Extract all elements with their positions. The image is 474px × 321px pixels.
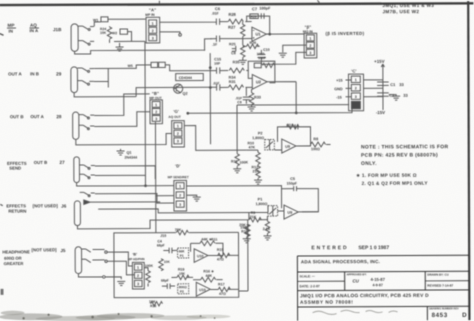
resistor R16 44K [193,269,223,282]
svg-text:ENTERED: ENTERED [311,245,348,251]
jumper W5 W4 [94,62,210,71]
svg-text:MP: MP [7,23,14,28]
label -15 [336,96,351,100]
svg-text:AQ OUT: AQ OUT [168,115,180,119]
svg-text:R27: R27 [228,25,236,30]
svg-text:ONLY.: ONLY. [361,161,377,167]
loop outer right [238,220,248,291]
svg-text:68pF: 68pF [157,243,165,247]
svg-text:‘D’: ‘D’ [175,163,180,168]
svg-text:R28: R28 [228,12,236,17]
svg-text:1: 1 [137,266,139,270]
border top [0,3,473,5]
capacitor C1 33 [377,82,404,87]
svg-text:10K: 10K [164,260,171,264]
svg-text:1,800Ω: 1,800Ω [252,136,264,140]
connector B (MQ IN) [304,33,317,58]
capacitor C8 [231,46,236,55]
wire jack6 ring [82,252,135,275]
left edge speck 3 [0,289,3,295]
svg-text:“A”: “A” [149,7,156,12]
svg-text:C1: C1 [390,82,396,87]
IC box CD4344 [176,74,204,81]
connector B3 label [128,253,145,262]
op-amp U10b [196,282,210,296]
svg-text:3: 3 [355,95,357,99]
svg-text:PCB PN: 425 REV B (68007b): PCB PN: 425 REV B (68007b) [361,152,438,158]
connector B3 (MP HD/PHN) [132,262,144,289]
svg-text:JMQ1, USE W1 & W3: JMQ1, USE W1 & W3 [382,3,434,8]
ground below R25 [239,59,247,64]
svg-text:U1: U1 [256,32,262,37]
resistor R13 [240,225,250,243]
svg-text:R17: R17 [218,282,225,286]
resistor R35 [229,60,252,78]
pot P2 [252,131,274,149]
ENTERED stamp [311,245,389,251]
svg-text:+15V: +15V [374,59,384,64]
resistor R10b 10K [159,259,171,271]
svg-text:2: 2 [309,44,311,48]
connector B2 label [149,91,161,100]
resistor R27 vertical [228,22,245,39]
svg-text:JMQ1 I/O PCB ANALOG CIRC: JMQ1 I/O PCB ANALOG CIRCUITRY, PCB 425 R… [300,293,429,299]
svg-text:‘C’: ‘C’ [351,69,356,74]
svg-text:REVISED 7-14-87: REVISED 7-14-87 [427,284,453,288]
label Q1 [124,151,137,160]
resistor R12 [252,165,263,184]
svg-text:W2: W2 [112,31,117,35]
svg-text:‘G’: ‘G’ [173,109,179,114]
svg-text:[NOT USED]: [NOT USED] [33,203,59,208]
capacitor C9 [212,35,243,46]
long wire minus15 b [237,105,349,151]
svg-text:2: 2 [177,132,179,136]
svg-text:47Ω: 47Ω [219,292,226,296]
svg-text:ADA SIGNAL PROCESSORS, INC.: ADA SIGNAL PROCESSORS, INC. [301,259,380,264]
connector B label [303,25,313,34]
op-amp U9 [282,139,296,153]
resistor R34 [228,76,252,90]
resistor R24 10K [100,26,112,43]
title drawn by [427,273,453,288]
svg-text:OUT A: OUT A [8,71,22,76]
wire row5 upper [80,192,174,203]
jack J3 [73,112,79,139]
svg-text:3: 3 [137,282,139,286]
svg-text:2: 2 [155,110,157,114]
resistor R17 47 [210,282,238,296]
ground right of D [187,195,201,201]
svg-text:(β IS INVERTED): (β IS INVERTED) [326,31,365,36]
svg-text:P1: P1 [258,198,263,202]
jack J6 [75,247,82,274]
wire G to P2 [196,149,246,151]
svg-text:ASSMBY NO 78008!: ASSMBY NO 78008! [300,300,353,306]
connector C (power) [348,74,363,111]
capacitor C4 [157,239,178,253]
wire jack2 sleeve [74,87,211,97]
svg-text:1: 1 [179,184,181,188]
svg-text:100Ω: 100Ω [311,147,320,151]
svg-text:.1F: .1F [212,43,218,47]
headphone loop box [114,232,239,297]
resistor R8 [296,137,331,151]
svg-text:20K: 20K [239,223,246,227]
wire jack1 ring [78,41,94,46]
bottom smudge band [0,310,231,321]
svg-text:SEP 1 0 1987: SEP 1 0 1987 [358,245,389,251]
svg-text:‘B’: ‘B’ [132,253,137,257]
jumper W2 [112,29,145,42]
resistor R11 [231,150,249,173]
svg-text:44K: 44K [205,274,212,278]
wire D pin2 bus [155,122,174,233]
title scale [299,274,319,288]
resistor R29 box [250,14,258,19]
wire to C6 [160,21,217,24]
svg-text:U9: U9 [285,145,290,149]
resistor R14b [263,216,272,240]
left edge speck 2 [0,204,3,205]
svg-text:.01F: .01F [213,81,220,85]
wire jack6 tip [82,249,133,266]
jack J1B [71,24,78,52]
svg-text:2N4344: 2N4344 [124,156,137,160]
ground Q1 [117,149,125,155]
label row3 OUT B [10,114,62,119]
svg-text:APPROVED BY:: APPROVED BY: [346,272,366,276]
svg-text:HEADPHONE: HEADPHONE [2,249,30,254]
svg-text:.01F: .01F [211,12,219,16]
svg-text:OUT B: OUT B [10,114,24,119]
wire to U1 plus [243,38,252,40]
svg-text:R11: R11 [211,237,217,241]
svg-text:600Ω OR: 600Ω OR [4,256,21,261]
switch row5 triangle [84,200,90,204]
wire jack6 sleeve [78,273,125,285]
wire jack1 tip [78,26,94,30]
wire pot to U9 [246,149,282,151]
capacitor C7 100pF [252,6,271,19]
svg-text:OUT B: OUT B [34,160,47,165]
label row5 EFFECTS RETURN [6,203,66,213]
svg-text:-15: -15 [336,96,342,100]
svg-text:1: 1 [177,124,179,128]
svg-text:DRAWING NUMBER REV: DRAWING NUMBER REV [429,307,459,310]
capacitor C2 33 [377,93,408,98]
top right note JMQ1 [382,3,434,14]
svg-text:C5: C5 [290,177,295,181]
label GND [334,87,351,91]
svg-text:100K: 100K [240,161,249,165]
capacitor C15 [210,57,228,73]
svg-text:100pF: 100pF [259,6,271,10]
resistor R28 [228,12,251,24]
svg-text:3: 3 [177,139,179,143]
title block frame [297,255,469,320]
svg-text:3: 3 [309,51,311,55]
connector D label [168,163,189,179]
wire jack3 tip [79,94,150,119]
wire jack4 sleeve [77,182,174,187]
svg-text:J6: J6 [61,204,67,209]
svg-text:U2: U2 [256,79,262,84]
svg-text:10P: 10P [214,62,221,66]
svg-text:OUT A: OUT A [30,114,44,119]
svg-text:1: 1 [309,37,311,41]
connector A label [145,7,156,17]
svg-text:P2: P2 [258,132,263,136]
capacitor C8b [235,87,250,104]
handwriting smudge title [313,310,398,315]
resistor R15 47 [208,248,239,262]
svg-text:C7: C7 [252,6,258,11]
svg-text:8453: 8453 [432,312,448,319]
svg-text:GREATER: GREATER [4,261,24,266]
ground right of C2 [389,95,400,101]
svg-text:150pF: 150pF [287,182,298,186]
svg-text:R33: R33 [254,96,261,100]
wire row5 mid [98,206,284,214]
svg-text:U9: U9 [287,211,292,215]
wire jack3 sleeve [76,133,172,144]
svg-text:MP IN: MP IN [145,13,155,17]
svg-text:[NOT USED]: [NOT USED] [32,247,58,252]
svg-text:C8: C8 [231,51,236,55]
svg-text:P1: P1 [180,254,184,258]
capacitor C6 .01F [211,6,228,25]
wire jack2 tip [77,68,94,72]
svg-text:GND: GND [334,87,343,91]
svg-text:∗ 1. FOR MP USE 50K Ω: ∗ 1. FOR MP USE 50K Ω [356,173,417,178]
resistor 44K fb [190,237,222,255]
feedback wire U1 [247,16,270,34]
svg-text:J10: J10 [160,234,166,238]
trimmer BAL P1 [178,248,189,258]
svg-text:C2: C2 [389,93,395,98]
svg-text:D: D [462,312,467,319]
svg-text:U10: U10 [199,288,206,292]
svg-text:3: 3 [179,203,181,207]
svg-text:CU: CU [352,279,359,284]
svg-text:66K: 66K [179,249,186,253]
svg-text:3: 3 [152,37,154,41]
svg-text:Q2: Q2 [183,92,188,96]
jack J2 [71,67,78,93]
wire D pin1 to P1 loop [186,186,281,189]
connector B2 (MP OUT) [150,100,162,124]
svg-text:IN: IN [8,29,12,34]
pot P1 [256,197,278,216]
svg-text:2: 2 [355,87,357,91]
svg-text:1: 1 [152,22,154,26]
capacitor C10 [257,48,270,64]
svg-text:2: 2 [179,194,181,198]
svg-text:47K: 47K [248,146,255,150]
capacitor C5 [287,177,298,191]
resistor R25 [229,39,245,60]
capacitor C14b [211,81,229,90]
border right [468,1,469,320]
svg-text:27: 27 [59,160,65,165]
svg-text:MP HD/PHN: MP HD/PHN [128,257,145,261]
ground right of A [160,32,182,36]
wire jack4 tip [79,165,155,180]
wire row5 sleeve [77,213,249,229]
wire beta pin3 down [261,52,306,64]
svg-text:47Ω: 47Ω [217,257,224,261]
resistor R26 [243,41,260,49]
NOTE items [356,173,428,186]
svg-text:68pF: 68pF [161,279,169,283]
wire beta pin2 to ground [279,45,307,57]
svg-text:R29: R29 [251,15,257,19]
feedback C14 [277,123,310,146]
connector D (MP SEND/RET) [174,180,187,211]
op-amp U2 [252,74,267,89]
svg-text:2: 2 [152,29,154,33]
svg-text:AQ: AQ [30,23,37,28]
svg-text:NOTE : THIS SCHEMATIC IS FOR: NOTE : THIS SCHEMATIC IS FOR [361,144,449,150]
label row4 EFFECTS SEND [7,160,65,171]
resistor 100K b3 [144,264,153,287]
svg-text:R8: R8 [313,137,318,141]
svg-text:CD4344: CD4344 [179,76,192,80]
svg-text:1: 1 [355,78,357,82]
svg-text:28: 28 [56,114,62,119]
wire U8 out [298,211,318,213]
svg-text:2: 2 [137,274,139,278]
long wire -15 rail [187,107,352,114]
wire U2 out [267,82,297,114]
wire jack3 ring [79,112,150,130]
svg-text:10K: 10K [179,272,186,276]
jack J4 [74,157,80,183]
svg-text:R25: R25 [229,42,236,46]
svg-text:IN A: IN A [29,28,38,33]
svg-text:SEND: SEND [9,166,21,171]
connector G label [168,109,180,119]
op-amp U10a [194,249,208,263]
wire row5 extra [91,201,161,203]
svg-text:MP SEND/RET: MP SEND/RET [168,175,189,179]
vertical junction wire [209,53,211,144]
+15V rail [374,59,385,110]
svg-text:C8: C8 [237,100,241,104]
ground below W2 [116,43,124,51]
op-amp U8 [284,205,298,219]
svg-text:RETURN: RETURN [8,209,26,214]
jack J5 [74,201,80,226]
resistor R20 vertical [239,223,250,236]
wire jack1 sleeve long [75,39,212,54]
title approved [346,272,385,287]
svg-text:R35: R35 [233,60,240,64]
resistor R18 [149,300,163,308]
resistor R10 [247,141,260,166]
svg-text:1,800Ω: 1,800Ω [256,202,268,206]
column header MP [7,23,16,28]
svg-text:+15: +15 [336,79,342,83]
label row1 IN [8,27,62,34]
svg-text:1: 1 [155,103,157,107]
svg-text:C6: C6 [215,6,221,11]
label row2 OUT A [8,71,62,76]
resistor 70K top [160,228,188,238]
jumper W1 [93,17,146,27]
svg-text:R15: R15 [217,248,224,252]
svg-text:R31: R31 [229,80,236,84]
resistor R33 [248,89,261,111]
long vertical bus [144,41,147,185]
svg-text:3: 3 [155,117,157,121]
capacitor C3b [161,279,175,289]
svg-text:29: 29 [56,71,62,76]
left edge speck 1 [0,33,4,35]
title drawing number [429,307,467,319]
NOTE block [361,144,449,167]
svg-text:4-9-87: 4-9-87 [372,283,382,287]
svg-text:4-15-87: 4-15-87 [370,277,385,282]
trimmer BAL P2 [178,284,189,294]
feedback loop U8 [282,189,319,212]
wire jack1 lower to C9 [211,38,217,40]
svg-text:J5: J5 [60,248,66,253]
wire jack2 ring [77,68,108,87]
title description [300,293,429,306]
feedback U2 [248,56,275,83]
svg-text:U10: U10 [197,254,204,258]
resistor R19 [171,268,193,280]
label +15 [336,79,351,83]
svg-text:J1B: J1B [53,27,62,32]
wires C pins to rail [363,80,382,97]
transistor Q2 [174,84,188,96]
svg-text:2. Q1 & Q2 FOR MP1 ONLY: 2. Q1 & Q2 FOR MP1 ONLY [362,181,429,186]
smudge dots [22,313,215,320]
wire U1 out to beta [266,33,304,35]
wire G pin1 over [184,126,196,151]
svg-text:100P: 100P [258,56,267,60]
label row6 HEADPHONE [2,247,66,266]
svg-text:DRAWN BY: CU: DRAWN BY: CU [427,273,448,277]
connector G (AQ OUT) [172,121,185,147]
svg-text:DATE: 2-2-87: DATE: 2-2-87 [299,284,319,288]
svg-text:JM7B, USE W2: JM7B, USE W2 [382,9,419,14]
svg-text:P2: P2 [180,290,184,294]
op-amp U1 [252,27,266,41]
resistor R9 [249,211,268,222]
svg-text:10K: 10K [100,31,107,35]
svg-text:Q1: Q1 [126,151,131,155]
svg-text:SCALE: —: SCALE: — [299,274,315,278]
column header AQ [29,23,39,28]
connector A [146,17,160,43]
svg-text:IN B: IN B [30,71,39,76]
wire jack4 ring [79,174,145,179]
tick mark top [159,0,319,3]
svg-text:W5: W5 [128,64,133,68]
svg-text:-15V: -15V [376,110,385,115]
